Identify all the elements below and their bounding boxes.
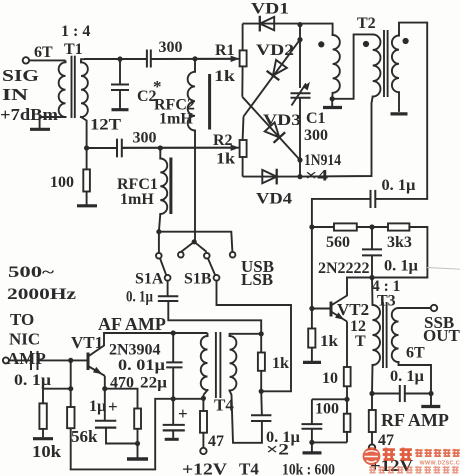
wire S1A cap to 1k top xyxy=(168,301,261,331)
svg-text:+7dBm: +7dBm xyxy=(0,105,58,124)
switch S1B pole xyxy=(214,275,220,281)
wire RFC2 down xyxy=(194,131,196,242)
svg-text:500~: 500~ xyxy=(8,264,55,281)
wire T4 primary bottom xyxy=(203,390,207,395)
svg-text:2000Hz: 2000Hz xyxy=(7,286,76,303)
node bias divider xyxy=(68,386,73,391)
resistor 56k xyxy=(70,389,72,407)
terminal SSB OUT xyxy=(431,305,437,311)
transformer T1 core xyxy=(71,56,73,118)
transformer T4 core xyxy=(215,332,217,398)
wire T4 secondary top xyxy=(230,334,262,336)
svg-text:12T: 12T xyxy=(90,117,121,134)
svg-text:1mH: 1mH xyxy=(120,191,154,208)
svg-text:1N914: 1N914 xyxy=(304,152,341,169)
wire R1 wiper xyxy=(195,58,233,60)
wire ring right rail lower xyxy=(299,98,301,177)
svg-text:SIG: SIG xyxy=(2,66,39,85)
resistor R2 xyxy=(240,140,247,157)
wire AF cap to base xyxy=(38,359,71,361)
node T3 ground net xyxy=(428,391,433,396)
node VT1 emitter net xyxy=(102,386,107,391)
wire base node down xyxy=(70,360,72,388)
svg-text:470: 470 xyxy=(110,375,134,392)
svg-text:47: 47 xyxy=(208,433,224,450)
node VD2 diag top xyxy=(297,37,302,42)
node VD3 diag bottom xyxy=(297,157,302,162)
transformer T2 secondary winding xyxy=(392,36,399,93)
transistor VT1 collector xyxy=(88,333,104,357)
svg-text:+: + xyxy=(108,397,118,416)
capacitor 0.1u coupling plates xyxy=(370,190,372,208)
svg-text:1mH: 1mH xyxy=(159,111,193,128)
wire T2 secondary bottom xyxy=(398,92,400,112)
terminal +12V AF xyxy=(200,448,206,454)
wire to 10k xyxy=(43,389,71,404)
node T2 secondary phase dot xyxy=(403,38,409,44)
svg-text:47: 47 xyxy=(378,432,394,449)
svg-text:1k: 1k xyxy=(320,333,338,350)
wire T4 secondary bottom xyxy=(230,391,262,443)
capacitor 0.1u VT2 collector xyxy=(371,227,373,249)
node RFC1 bottom xyxy=(156,229,161,234)
wire T3 primary bottom xyxy=(371,365,374,394)
svg-text:IN: IN xyxy=(2,85,29,104)
node RFC2 bottom xyxy=(192,239,197,244)
diode VD2 xyxy=(268,60,287,80)
svg-text:*: * xyxy=(153,77,162,96)
svg-text:1k: 1k xyxy=(214,68,235,85)
transformer T4 primary winding xyxy=(201,336,208,390)
transformer T3 core xyxy=(382,302,384,368)
scan artifact line xyxy=(427,268,460,270)
svg-text:AF AMP: AF AMP xyxy=(98,314,166,334)
diode VD3 xyxy=(265,122,285,142)
svg-text:NIC: NIC xyxy=(9,330,40,349)
ground 22u xyxy=(165,438,179,441)
capacitor C1 variable xyxy=(291,92,311,94)
wire ring left rail lower xyxy=(242,157,244,177)
switch S1B lever xyxy=(208,258,215,275)
resistor 470 xyxy=(134,409,141,429)
wire collector node to T3 xyxy=(371,278,374,306)
wire T1 bottom to junction xyxy=(81,117,87,148)
resistor 3k3 xyxy=(388,223,409,230)
wire ring left upper to diag xyxy=(241,66,243,96)
transformer T3 secondary winding xyxy=(392,308,399,362)
svg-text:LSB: LSB xyxy=(241,270,273,289)
svg-text:1k: 1k xyxy=(216,151,235,168)
svg-text:+: + xyxy=(178,404,188,423)
node VT1 base xyxy=(68,358,73,363)
wire 10 to node xyxy=(346,386,348,399)
wire VT1 collector rail xyxy=(104,332,208,334)
wire lower rail A xyxy=(87,147,117,149)
wire node X to T4 xyxy=(173,398,203,400)
transformer T1 primary winding xyxy=(59,62,66,117)
ground T1 primary xyxy=(30,128,50,131)
wire VT2 emitter down xyxy=(346,322,348,368)
wire RFC1 down xyxy=(159,214,160,232)
node 560 3k3 junction xyxy=(369,224,374,229)
capacitor 1u electrolytic xyxy=(104,389,106,421)
wire AF in to cap xyxy=(9,359,31,361)
wire carrier rail A xyxy=(84,58,147,60)
svg-text:6T: 6T xyxy=(406,345,425,362)
wire emitter cap top xyxy=(312,398,347,400)
transistor VT1 emitter xyxy=(88,366,105,376)
resistor 560 xyxy=(312,226,334,228)
svg-text:S1A: S1A xyxy=(135,271,164,288)
wire T3 secondary bottom xyxy=(399,362,432,394)
ground 100 T1 xyxy=(77,204,97,207)
svg-text:10k: 10k xyxy=(32,442,62,461)
svg-text:6T: 6T xyxy=(34,44,53,61)
transformer T4 secondary winding xyxy=(230,336,237,391)
svg-text:VD2: VD2 xyxy=(256,42,294,59)
transformer T2 winding 1 xyxy=(333,35,340,93)
wire 3k3 right loop xyxy=(347,227,427,278)
svg-text:0. 1µ: 0. 1µ xyxy=(384,258,418,275)
wire ring right rail upper xyxy=(299,24,301,88)
transistor VT2 emitter xyxy=(331,312,347,322)
wire Y to S1A right contact xyxy=(181,242,194,252)
wire S1B pole down xyxy=(217,281,292,392)
capacitor C2 xyxy=(119,59,121,85)
svg-text:2N3904: 2N3904 xyxy=(109,342,161,359)
capacitor 0.01u xyxy=(172,333,174,362)
resistor 10 xyxy=(344,367,351,386)
svg-text:RF AMP: RF AMP xyxy=(381,410,449,430)
svg-text:OUT: OUT xyxy=(423,326,460,345)
svg-text:3k3: 3k3 xyxy=(387,234,412,251)
wire T2 winding1 bottom xyxy=(331,93,333,99)
wire Y to S1B left contact xyxy=(194,242,206,252)
ground C2 xyxy=(112,108,129,111)
node 1k T4 bottom xyxy=(259,389,264,394)
wire S1A pole down xyxy=(167,281,169,297)
switch S1B right contact xyxy=(230,252,236,258)
resistor 1k T4 xyxy=(260,334,262,353)
capacitor 0.1u emitter xyxy=(311,429,313,443)
svg-text:TO: TO xyxy=(10,310,34,329)
wire ring bottom rail xyxy=(243,176,300,178)
diode VD1 xyxy=(260,17,274,30)
wire 560 to 3k3 xyxy=(357,226,388,228)
wire VT1 emitter down xyxy=(104,376,106,389)
capacitor 300 lower plates xyxy=(116,139,118,158)
capacitor 0.1u T4 xyxy=(260,391,263,415)
ground T2 center tap xyxy=(331,99,333,106)
resistor 47 RF xyxy=(371,394,373,411)
svg-text:10: 10 xyxy=(322,370,338,387)
wire coupling cap right xyxy=(375,198,427,200)
switch S1B left contact xyxy=(204,253,210,259)
wire VT1 base xyxy=(71,359,87,361)
svg-text:0. 01µ: 0. 01µ xyxy=(118,357,165,374)
inductor RFC1 core bar xyxy=(169,158,172,215)
terminal +12V RF xyxy=(369,444,375,450)
wire R2 wiper xyxy=(122,147,233,149)
node 0.01u top xyxy=(171,330,176,335)
svg-text:1µ: 1µ xyxy=(89,398,106,415)
wire T2 tap to winding 2 xyxy=(332,34,373,98)
wire ring top rail xyxy=(243,23,300,25)
terminal SIG IN xyxy=(23,57,29,63)
watermark dzsc logo xyxy=(363,447,460,473)
node T3 supply xyxy=(369,391,374,396)
svg-text:100: 100 xyxy=(50,174,74,191)
svg-text:1 : 4: 1 : 4 xyxy=(61,23,90,40)
resistor 1k VT2 base xyxy=(311,309,313,329)
wire T1 primary bottom xyxy=(40,117,66,128)
resistor 100 T1 xyxy=(86,148,88,169)
wire T2 secondary top xyxy=(399,23,427,199)
ground 1k VT2 xyxy=(303,361,321,364)
inductor RFC2 core bar xyxy=(208,74,211,130)
node 560 left xyxy=(309,224,314,229)
resistor 47 AF xyxy=(202,398,204,411)
svg-text:300: 300 xyxy=(133,130,157,147)
wire T1 secondary top stub xyxy=(81,59,84,62)
svg-text:+12V: +12V xyxy=(182,460,228,476)
ground T2 secondary xyxy=(391,112,408,115)
ground emitter network xyxy=(311,442,313,451)
svg-text:WWW.DZSC.COM: WWW.DZSC.COM xyxy=(420,460,460,466)
capacitor 0.1u AF plates xyxy=(30,351,32,370)
svg-text:AMP: AMP xyxy=(7,349,46,368)
svg-text:T1: T1 xyxy=(64,41,83,58)
switch S1A pole xyxy=(165,275,171,281)
wire diagonal VD2 xyxy=(244,40,301,117)
wire emitter to 470 xyxy=(105,389,138,409)
resistor R1 xyxy=(240,50,247,66)
node VT2 emitter net xyxy=(344,397,349,402)
transformer T3 primary winding xyxy=(373,305,381,365)
svg-text:1k: 1k xyxy=(272,355,289,372)
svg-text:T: T xyxy=(355,333,366,350)
svg-text:22µ: 22µ xyxy=(140,375,167,392)
transistor VT1 base bar xyxy=(87,353,90,371)
wire supply return rail xyxy=(71,399,174,470)
wire ring left rail upper xyxy=(242,24,244,51)
node C2 top xyxy=(117,56,122,61)
switch S1A right contact xyxy=(178,252,184,258)
resistor 10k xyxy=(39,403,46,429)
inductor RFC2 xyxy=(194,59,196,72)
svg-text:300: 300 xyxy=(304,127,328,144)
wire T4 bottom stub xyxy=(202,395,204,398)
svg-text:56k: 56k xyxy=(71,427,98,446)
svg-text:300: 300 xyxy=(159,39,183,56)
wire VT2 base xyxy=(312,308,330,310)
svg-text:10k : 600: 10k : 600 xyxy=(282,462,335,476)
wire 100 bottom to ground node xyxy=(312,441,347,443)
wire SIG input to T1 xyxy=(29,59,65,61)
node emitter bypass ground xyxy=(309,440,314,445)
node VT2 base node xyxy=(309,306,314,311)
svg-text:0. 1µ: 0. 1µ xyxy=(390,368,424,385)
svg-text:T2: T2 xyxy=(357,15,376,32)
wire lower rail B xyxy=(122,147,240,149)
inductor RFC1 xyxy=(159,148,161,159)
svg-text:100: 100 xyxy=(315,401,339,418)
wire coupling cap left xyxy=(312,199,371,227)
wire VT2 bias rail xyxy=(311,227,313,309)
node T2 winding1 phase dot xyxy=(318,41,324,47)
node supply filter xyxy=(171,396,176,401)
transformer T1 secondary winding xyxy=(81,62,88,117)
wire ring left lower to diag xyxy=(242,117,245,141)
transistor VT2 base bar xyxy=(330,302,333,317)
svg-text:VD3: VD3 xyxy=(263,112,301,129)
switch S1A lever xyxy=(160,258,166,275)
capacitor 0.1u T3 bypass xyxy=(372,393,400,395)
node collector rail junction xyxy=(369,275,374,280)
wire RFC1 to S1A left contact xyxy=(158,232,160,253)
svg-text:0. 1µ: 0. 1µ xyxy=(14,372,51,389)
wire 470 bottom xyxy=(137,429,139,444)
ground 10k xyxy=(42,429,44,437)
wire ring to T2 primary xyxy=(300,24,333,35)
wire T2 winding2 down to ring xyxy=(300,97,373,177)
svg-text:T4: T4 xyxy=(239,460,259,476)
svg-text:S1B: S1B xyxy=(184,271,212,288)
transformer T2 core xyxy=(383,30,385,97)
node RFC2 top xyxy=(192,56,197,61)
arrow R2 wiper xyxy=(231,145,240,151)
svg-text:R2: R2 xyxy=(213,132,233,149)
node 1k T4 top xyxy=(259,331,264,336)
capacitor 0.1u S1A plates xyxy=(158,295,178,297)
wire T3 secondary top to SSB xyxy=(399,307,431,309)
switch S1A left contact xyxy=(156,253,162,259)
svg-text:VT2: VT2 xyxy=(337,300,369,319)
svg-text:2N2222: 2N2222 xyxy=(318,260,370,277)
node T2 center tap xyxy=(330,96,335,101)
node ring top corner xyxy=(297,22,302,27)
wire diagonal VD3 xyxy=(242,97,300,160)
wire RFC1 to S1B right contact xyxy=(159,232,233,252)
node T4 supply xyxy=(201,396,206,401)
diode VD4 xyxy=(262,170,276,183)
transformer T2 winding 2 xyxy=(373,34,381,96)
terminal AF input xyxy=(3,357,9,363)
svg-text:560: 560 xyxy=(326,234,350,251)
transistor VT2 collector xyxy=(331,278,347,306)
resistor 100 VT2 xyxy=(346,399,348,413)
capacitor 22u electrolytic xyxy=(172,399,174,425)
node T2 winding2 phase dot xyxy=(363,41,369,47)
node ring bottom corner xyxy=(297,174,302,179)
svg-text:0. 1µ: 0. 1µ xyxy=(382,177,416,194)
ground 470 xyxy=(137,444,139,458)
node T1 bottom xyxy=(84,145,89,150)
arrow R1 wiper xyxy=(231,56,240,62)
capacitor 300 top plates xyxy=(146,50,148,68)
svg-text:VD1: VD1 xyxy=(251,1,289,18)
svg-text:0. 1µ: 0. 1µ xyxy=(126,289,153,306)
node RFC1 top xyxy=(158,145,163,150)
svg-text:×2: ×2 xyxy=(266,442,289,459)
wire carrier rail B xyxy=(151,58,240,60)
svg-text:C1: C1 xyxy=(306,110,326,127)
svg-text:VD4: VD4 xyxy=(256,191,292,208)
node 470 bottom xyxy=(135,441,140,446)
ground T3 secondary xyxy=(430,394,432,406)
